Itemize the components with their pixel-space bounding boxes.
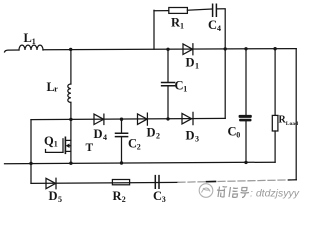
inductor L1 (19, 45, 43, 50)
svg-text:D: D (186, 129, 195, 143)
svg-text:L: L (24, 31, 32, 45)
resistor R2 (112, 180, 129, 185)
wire bottom branch gray segment under watermark (178, 180, 290, 182)
junction C1 top (166, 48, 169, 51)
wire C1 branch lower (167, 86, 169, 119)
capacitor C3 (155, 176, 159, 189)
junction C0 top (244, 47, 247, 50)
wire right edge vertical (295, 49, 297, 180)
capacitor C4 (213, 4, 217, 16)
svg-text:r: r (54, 85, 58, 94)
wire R1C4 loop right vertical down to D3 (224, 10, 226, 119)
wire Q1 source to lower wire (70, 140, 72, 163)
diode D4 (94, 114, 104, 124)
svg-text:2: 2 (122, 195, 126, 204)
capacitor C2 (116, 133, 128, 136)
wire C0 branch upper (245, 49, 247, 115)
label R1 (171, 16, 184, 31)
wire bottom branch corner (31, 182, 178, 183)
wire bottom branch right end (289, 179, 297, 181)
wire Rload branch lower (274, 131, 276, 162)
svg-text:1: 1 (54, 140, 58, 149)
svg-text:4: 4 (103, 133, 107, 142)
label C0 (228, 125, 241, 140)
label Q1 (44, 134, 58, 149)
diode D2 (138, 113, 148, 125)
wire R1C4 loop left vertical (153, 10, 155, 49)
svg-text:C: C (153, 189, 162, 203)
diode D3 (182, 112, 193, 124)
label D2 (147, 126, 161, 141)
transistor Q1 source lead (65, 150, 71, 152)
svg-text:1: 1 (32, 37, 36, 46)
inductor Lr (68, 84, 71, 102)
wire C2 branch upper (121, 119, 123, 133)
label Rload (279, 115, 299, 128)
resistor Rload (272, 115, 278, 131)
label R2 (113, 189, 126, 204)
label C4 (208, 18, 221, 33)
label T (86, 142, 94, 154)
svg-text:1: 1 (195, 62, 199, 71)
svg-text:0: 0 (236, 131, 240, 140)
wire C1 branch upper (167, 49, 169, 82)
wire Lr to Q1 drain (70, 102, 72, 140)
svg-text:: dtdzjsyyy: : dtdzjsyyy (250, 188, 300, 200)
svg-text:3: 3 (162, 195, 166, 204)
label L1 (24, 31, 36, 46)
junction C1 bottom (166, 117, 169, 120)
wire input stub top-left (5, 50, 20, 52)
label Lr (47, 80, 59, 94)
svg-text:1: 1 (180, 22, 184, 31)
transistor Q1 drain lead (65, 139, 71, 141)
svg-text:1: 1 (183, 85, 187, 94)
label D3 (186, 129, 200, 144)
wire C0 branch lower (245, 121, 247, 162)
svg-text:4: 4 (217, 24, 221, 33)
watermark logo (199, 184, 213, 198)
resistor R1 (169, 8, 188, 14)
svg-text:2: 2 (156, 132, 160, 141)
wire Rload branch upper (274, 49, 276, 116)
junction left vertical / lower wire (29, 162, 32, 165)
wire Lr branch upper (70, 49, 72, 84)
svg-text:D: D (94, 127, 103, 141)
svg-text:5: 5 (58, 195, 62, 204)
svg-text:3: 3 (195, 135, 199, 144)
diode D1 (183, 44, 193, 55)
wire R1C4 loop top (154, 9, 225, 11)
svg-text:C: C (208, 18, 217, 32)
junction C2 bottom (120, 161, 123, 164)
label D5 (49, 189, 63, 204)
transistor Q1 gate bar (62, 139, 64, 153)
watermark text wechat id (217, 187, 249, 198)
svg-text:Q: Q (44, 134, 54, 148)
capacitor C1 (162, 83, 175, 86)
transistor Q1 gate lead (46, 150, 64, 153)
svg-text:C: C (228, 125, 237, 139)
junction C2 top (120, 118, 123, 121)
wire left vertical Q1 branch (30, 120, 32, 184)
wire lower node (return path) (5, 162, 276, 164)
junction Rload top (273, 47, 276, 50)
svg-text:D: D (186, 56, 195, 70)
svg-text:D: D (147, 126, 156, 140)
transistor Q1 channel bar (64, 137, 66, 153)
junction Q1 source / lower wire (69, 162, 72, 165)
label C1 (175, 79, 188, 94)
label C3 (153, 189, 166, 204)
wire top node A (43, 49, 296, 50)
svg-text:C: C (175, 79, 184, 93)
junction loop right / top wire (224, 47, 227, 50)
wire C2 branch lower (121, 137, 123, 164)
label D4 (94, 127, 108, 142)
diode D5 (46, 178, 56, 189)
label C2 (128, 137, 141, 152)
svg-text:D: D (49, 189, 58, 203)
svg-text:2: 2 (137, 143, 141, 152)
svg-text:Load: Load (286, 121, 298, 127)
transistor Q1 arrow lead (68, 145, 71, 147)
wire middle node (31, 118, 225, 119)
transistor Q1 arrowhead (66, 143, 70, 148)
svg-text:T: T (86, 142, 94, 154)
junction Lr top (69, 48, 72, 51)
junction C0 bottom (244, 161, 247, 164)
junction Lr / middle wire (69, 118, 72, 121)
capacitor C0 (239, 115, 252, 122)
wire bottom branch dark dash over watermark (207, 181, 216, 183)
svg-text:C: C (128, 137, 137, 151)
label D1 (186, 56, 200, 71)
